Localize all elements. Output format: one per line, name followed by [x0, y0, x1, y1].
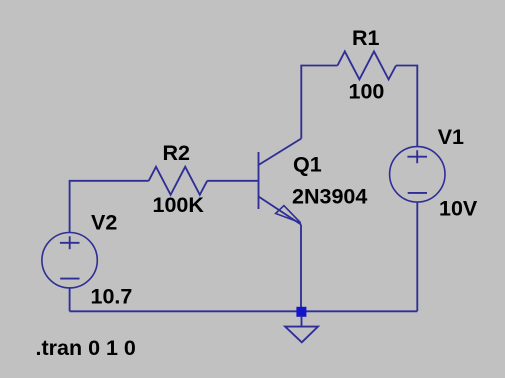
svg-text:V1: V1: [438, 125, 464, 149]
resistor R1: [338, 51, 397, 79]
wire V2-bottom: [69, 288, 71, 311]
wire V2-top to R2 (node N002): [70, 181, 149, 233]
svg-text:Q1: Q1: [293, 153, 322, 177]
wire V1-to-rail: [416, 202, 418, 311]
wire ground rail: [70, 310, 418, 312]
wire emitter-to-junction: [300, 225, 302, 312]
voltage source V1: [390, 147, 445, 202]
svg-text:V2: V2: [91, 211, 117, 235]
svg-text:10.7: 10.7: [91, 284, 133, 308]
svg-text:100: 100: [349, 80, 385, 104]
wire collector-to-R1 (node N001): [301, 66, 337, 139]
svg-text:.tran 0 1 0: .tran 0 1 0: [36, 336, 136, 360]
svg-text:R1: R1: [352, 26, 380, 50]
svg-text:100K: 100K: [153, 193, 205, 217]
svg-text:R2: R2: [163, 141, 191, 165]
wire R2 to base: [207, 180, 258, 182]
junction node: [296, 307, 306, 317]
ground: [285, 316, 318, 342]
resistor R2: [149, 167, 208, 195]
svg-text:2N3904: 2N3904: [292, 185, 367, 209]
transistor Q1: [259, 139, 302, 225]
wire R1-to-V1: [396, 66, 417, 147]
svg-text:10V: 10V: [439, 196, 478, 220]
voltage source V2: [42, 233, 97, 288]
